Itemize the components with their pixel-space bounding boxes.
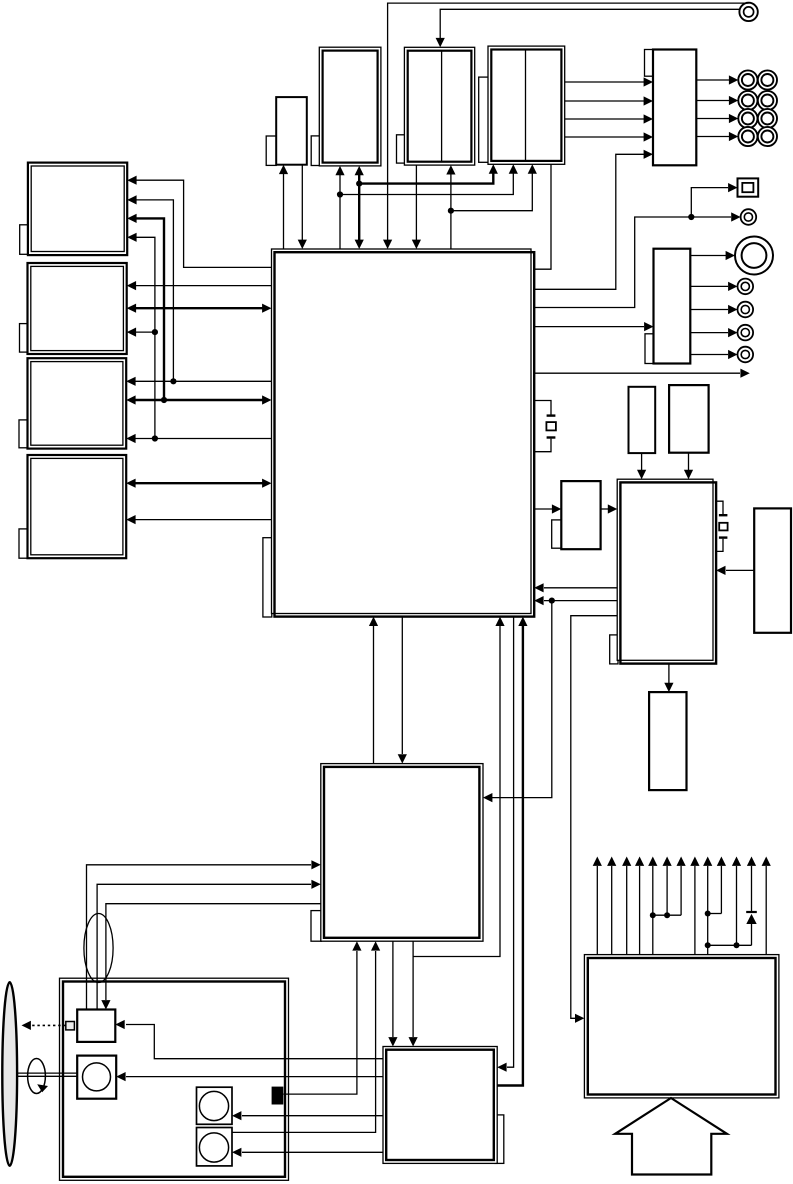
wire U1-to-U3 (down arrow into U3 top) (398, 617, 407, 764)
block RB2 (right regulator box) (754, 508, 791, 632)
block U3 (servo/RF processor) (311, 764, 483, 942)
wire T3-to-U1 (down arrow into U1) (412, 165, 421, 249)
wire T4-to-U1 corner link (534, 164, 551, 269)
dashed laser beam arrow (22, 1021, 66, 1030)
RCA jack pair row4 (738, 127, 777, 146)
PSU output rail 8 (690, 857, 699, 955)
optical pickup PU (66, 1010, 115, 1042)
connector block C2 (645, 249, 690, 364)
RCA jack pair row1 (738, 70, 777, 89)
flex cable loop ellipse (84, 914, 113, 983)
wire T4-to-C1 in3 (565, 114, 653, 123)
wire C1-out1 (696, 75, 738, 84)
PSU output rail 9 with tie junctions (703, 857, 712, 955)
wire C2-out5 (690, 350, 737, 359)
block T4 (top box 4) (479, 46, 565, 164)
wire U1-to-CN2 with branch to S-video (534, 183, 740, 308)
wire C2-out1 (690, 251, 735, 260)
wire U2-to-U1 b with branch to U3 (483, 596, 617, 802)
wire U1-to-RB1 (534, 504, 561, 513)
wire net L3a: U1 to L3 pin1 (junction with L1b riser) (126, 377, 271, 386)
wire RB2-to-U2 (716, 566, 754, 575)
block RB1 (small box feeding U2) (552, 481, 601, 549)
spindle motor M1 (77, 1056, 116, 1099)
wire U1-to-C1 in5 (riser x616) (534, 150, 653, 290)
wire C2-out4 (690, 328, 737, 337)
wire U4-to-LB1 (232, 1111, 383, 1120)
wire U1 long output arrow (534, 369, 750, 378)
wire CN1-to-T3 (down arrow into T3 top) (436, 9, 740, 47)
big box U2 (decoder IC) (610, 479, 716, 664)
wire RT1-to-U2 (637, 453, 646, 479)
motor LB1 (sled) (197, 1087, 233, 1124)
RCA jack pair row2 (738, 91, 777, 110)
wire net L3b: U1-L3 bidirectional (thick, junction with L1c riser) (126, 395, 271, 404)
PSU output rail 5 with tie junction (648, 857, 657, 955)
connector CN6 (738, 325, 754, 341)
wire net L2c: riser x154.9 to L2 pin3 (127, 328, 155, 337)
wire net L1d: L1 pin4 riser through y332 to y438 (127, 233, 158, 442)
wire net L1b: L1 pin2 riser to y381 (127, 195, 173, 381)
PSU tie bar 3 and rails 11,12 (708, 857, 752, 949)
block U4 (driver IC) (383, 1047, 504, 1164)
crystal X2 on U2 right edge (716, 501, 728, 551)
block RT1 (629, 387, 656, 453)
wire RT2-to-U2 (684, 453, 693, 480)
connector CN2 (composite jack) (741, 209, 757, 225)
wire LB2-to-U3 (232, 941, 380, 1132)
block S (small top box) (266, 97, 307, 165)
wire U1-to-T2 with branch to T4 (335, 164, 517, 249)
rotation indicator ellipse (28, 1059, 48, 1094)
wire U3-to-U4 a (388, 941, 397, 1046)
PSU tie bar 2 and rail 10 (708, 857, 726, 914)
wire net L4a: U1-L4 bidirectional (thick) (126, 479, 271, 488)
wire U3-to-U1 (up arrow into U1 bottom) (369, 617, 378, 764)
S-video connector CN-SV (738, 178, 759, 196)
block U5 (power supply) (584, 955, 779, 1098)
wire CN1-to-U1 (down arrow into U1 top) (383, 3, 749, 249)
connector CN3 (large jack) (735, 237, 773, 275)
wire U3-to-PU control (101, 904, 320, 1010)
wire net L4b: U1 to L4 pin2 (126, 515, 271, 524)
PSU output rail 1 (593, 857, 602, 955)
block T2 (top box 2) (311, 47, 381, 166)
block L4 (left box 4) (19, 455, 126, 558)
block RT2 (669, 385, 709, 453)
block T3 (top box 3) (397, 47, 475, 165)
wire U3-to-U4 b with branch up to U1 (409, 617, 505, 1047)
motor LB2 (loading) (197, 1128, 233, 1166)
crystal X1 on U1 right edge (534, 401, 556, 452)
diode D1 (746, 857, 757, 925)
connector block C1 (645, 50, 697, 166)
wire U2-to-U1 a (534, 583, 617, 592)
connector CN4 (738, 279, 754, 295)
deck chassis box DK1 (60, 978, 289, 1180)
wire C1-out3 (696, 114, 738, 123)
disc (gray ellipse) (2, 982, 17, 1166)
main box U1 (263, 249, 534, 617)
wire C1-out4 (696, 132, 738, 141)
wire net L2a: U1 to L2 pin1 (127, 281, 272, 290)
wire U4-to-M1 (spindle drive) (116, 1072, 383, 1081)
connector CN5 (738, 302, 754, 318)
block L2 (left box 2) (20, 263, 127, 354)
wire net L3c: U1 to L3 pin3 (junction with L1d riser) (126, 434, 271, 443)
wire U4-to-PU (focus/tracking feed) (115, 1020, 383, 1059)
wire C1-out2 (696, 96, 738, 105)
wire U1-T2 bidirectional (thick) with branch to T4 (355, 164, 498, 249)
wire deck-connector-to-U3 (thick) (283, 941, 361, 1094)
block RB3 (box below U2) (649, 692, 686, 790)
wire U1-to-S (up into small box) (279, 165, 288, 249)
wire U2-to-RB3 (664, 664, 673, 693)
wire U2-to-U5 (power supply feed) (571, 616, 617, 1023)
connector (black) on deck (272, 1087, 284, 1105)
wire PU-to-U3 read1 (87, 860, 321, 1009)
wire U1-to-C2 input (534, 322, 653, 331)
wire C2-out2 (690, 282, 737, 291)
wire net L2b: U1-L2 bidirectional (thick) (127, 304, 272, 313)
wire C2-out3 (690, 305, 737, 314)
RCA jack pair row3 (738, 109, 777, 128)
wire RB1-to-U2 (601, 504, 618, 513)
wire T4-to-C1 in4 (565, 132, 653, 141)
wire U4-to-U1 (thick, up arrow into U1) (497, 617, 527, 1086)
PSU output rail 2 (607, 857, 616, 955)
AC mains block arrow (615, 1098, 727, 1175)
wire S-to-U1 (down arrow into U1 top) (298, 165, 307, 249)
PSU tie bar 1 and rails 6,7 (653, 857, 686, 919)
PSU output rail 3 (622, 857, 631, 955)
axle (double line from disc to motor) (17, 1073, 77, 1076)
wire net L1c: L1 pin3 riser to y400 (thick) (127, 214, 164, 400)
wire U1-to-U4 (right side, arrow into U4) (497, 617, 513, 1072)
connector CN1 (top phono jack) (739, 3, 757, 21)
PSU output rail 13 (762, 857, 771, 955)
block L3 (left box 3) (19, 358, 126, 448)
connector CN7 (738, 347, 754, 363)
PSU output rail 4 (635, 857, 644, 955)
wire T4-to-C1 in2 (565, 96, 653, 105)
wire U1-to-T3 with branch to T4 (446, 164, 537, 249)
wire net L1a: U1 to L1 pin1 (127, 176, 271, 268)
wire T4-to-C1 in1 (565, 77, 653, 86)
wire PU-to-U3 read2 (97, 880, 321, 1010)
wire U4-to-LB2 (232, 1148, 383, 1157)
block L1 (left box 1) (20, 163, 128, 256)
